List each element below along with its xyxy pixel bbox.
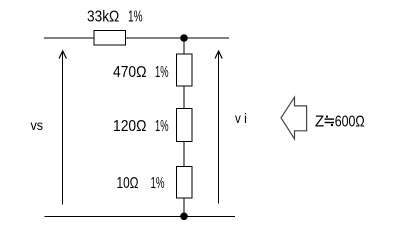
resistor 10Ω (shunt, bottom) — [177, 167, 193, 199]
svg-text:v: v — [235, 111, 241, 126]
svg-text:1%: 1% — [128, 8, 143, 25]
arrow vs (source voltage) — [59, 51, 66, 205]
label: 10Ω 1% — [117, 175, 165, 192]
svg-text:vs: vs — [31, 118, 44, 133]
svg-text:470Ω: 470Ω — [113, 64, 147, 81]
label: 120Ω 1% — [113, 118, 169, 135]
wire: vertical bus through resistor chain — [183, 38, 185, 217]
svg-text:1%: 1% — [151, 175, 165, 192]
svg-text:600Ω: 600Ω — [335, 114, 365, 131]
resistor 470Ω (shunt, top) — [177, 54, 193, 86]
junction node: bottom — [180, 213, 188, 221]
resistor 120Ω (shunt, middle) — [177, 109, 193, 142]
label: vi — [235, 111, 247, 126]
svg-text:i: i — [244, 111, 247, 126]
svg-text:Z: Z — [315, 114, 324, 131]
resistor 33kΩ (series, horizontal) — [94, 31, 126, 46]
label: Z≒600Ω — [315, 114, 365, 131]
label: 470Ω 1% — [113, 64, 169, 81]
label: 33kΩ 1% — [87, 8, 143, 25]
wire: bottom horizontal rail — [45, 216, 236, 218]
junction node: top — [180, 34, 188, 42]
wire: top horizontal rail — [44, 37, 229, 39]
arrow vi (input voltage) — [215, 51, 222, 203]
svg-text:10Ω: 10Ω — [117, 175, 139, 192]
svg-text:120Ω: 120Ω — [113, 118, 147, 135]
svg-text:1%: 1% — [155, 118, 169, 135]
block arrow: impedance looking left — [281, 97, 307, 139]
svg-text:33kΩ: 33kΩ — [87, 8, 119, 25]
svg-text:1%: 1% — [155, 64, 169, 81]
